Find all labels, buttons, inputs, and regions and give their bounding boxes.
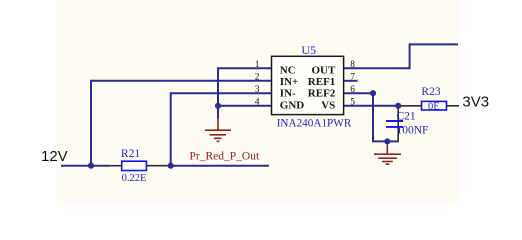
wire stem below pin4 junction xyxy=(217,106,219,119)
wire REF1 pin 7 stub xyxy=(344,80,358,82)
svg-text:VS: VS xyxy=(321,99,335,111)
svg-text:IN-: IN- xyxy=(280,88,296,100)
capacitor C21 plates xyxy=(386,121,403,127)
svg-text:REF2: REF2 xyxy=(308,88,336,100)
ground symbol below U5 xyxy=(205,118,231,142)
svg-text:100NF: 100NF xyxy=(397,124,429,136)
junction node at GND pin xyxy=(215,103,221,109)
svg-text:Pr_Red_P_Out: Pr_Red_P_Out xyxy=(190,151,260,163)
resistor R23 body xyxy=(422,101,447,110)
resistor R21 left lead xyxy=(109,165,122,167)
wire 12V main horizontal net xyxy=(61,165,109,167)
wire GND pin 4 xyxy=(218,105,272,107)
junction node at REF2 corner xyxy=(370,90,376,96)
resistor R23 left lead xyxy=(398,105,421,107)
junction node at 12V/IN+ xyxy=(88,163,94,169)
wire branch to IN- pin 3 xyxy=(171,93,272,166)
op-amp U5 body INA240A1PWR xyxy=(272,56,344,114)
svg-text:R21: R21 xyxy=(121,148,140,160)
svg-text:INA240A1PWR: INA240A1PWR xyxy=(277,117,352,129)
resistor R23 right lead to 3V3 xyxy=(447,105,460,107)
schematic sheet background xyxy=(57,0,458,202)
svg-text:1: 1 xyxy=(255,60,260,70)
junction node at ground net xyxy=(384,138,390,144)
svg-text:2: 2 xyxy=(255,73,260,83)
svg-text:8: 8 xyxy=(350,60,355,70)
wire REF2 pin 6 down to ground net xyxy=(344,93,399,141)
svg-text:NC: NC xyxy=(280,64,296,76)
svg-text:GND: GND xyxy=(280,99,305,111)
wire NC pin 1 to GND net xyxy=(218,68,272,106)
wire VS pin 5 xyxy=(344,105,399,107)
svg-text:5: 5 xyxy=(350,98,355,108)
svg-text:7: 7 xyxy=(350,73,355,83)
wire branch to IN+ pin 2 xyxy=(91,81,272,166)
resistor R21 body xyxy=(122,161,147,170)
ground symbol below C21 xyxy=(374,143,401,164)
svg-text:C21: C21 xyxy=(397,111,416,123)
svg-text:0E: 0E xyxy=(428,101,440,112)
svg-text:0.22E: 0.22E xyxy=(122,173,147,184)
svg-text:R23: R23 xyxy=(421,86,440,98)
wire main net between R21 and label end xyxy=(170,165,270,167)
svg-text:4: 4 xyxy=(255,98,260,108)
svg-text:OUT: OUT xyxy=(311,64,336,76)
svg-text:IN+: IN+ xyxy=(280,76,299,88)
svg-text:3V3: 3V3 xyxy=(462,93,489,110)
svg-text:12V: 12V xyxy=(41,148,68,165)
junction node at VS/C21 xyxy=(395,103,401,109)
junction node at main/IN- xyxy=(168,163,174,169)
capacitor C21 lead xyxy=(397,107,399,142)
svg-text:REF1: REF1 xyxy=(308,76,336,88)
svg-text:6: 6 xyxy=(350,85,355,95)
svg-text:U5: U5 xyxy=(301,43,316,57)
resistor R21 right lead xyxy=(146,165,169,167)
wire OUT pin 8 going up right xyxy=(344,44,458,68)
svg-text:3: 3 xyxy=(255,85,260,95)
